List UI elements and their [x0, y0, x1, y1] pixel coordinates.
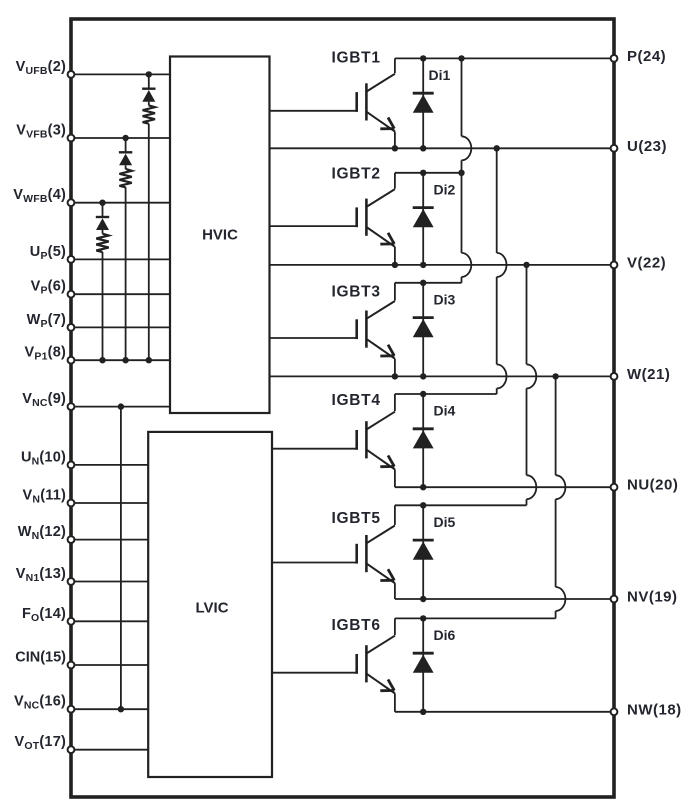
wire pin VP1(8) to IC [71, 359, 170, 361]
junction bootstrap 1 top [146, 71, 152, 77]
pin terminal UN(10) [68, 462, 75, 469]
pin terminal U(23) [611, 145, 618, 152]
diode Di2 [413, 173, 434, 265]
svg-text:Di1: Di1 [429, 67, 451, 83]
svg-text:IGBT1: IGBT1 [332, 50, 381, 67]
wire pin UN(10) to IC [71, 464, 148, 466]
junction feed C at V rail [523, 262, 529, 268]
pin terminal NU(20) [611, 484, 618, 491]
junction feed A at P rail [458, 55, 464, 61]
wire VNC bus vertical [120, 407, 122, 710]
junction diode Di4 anode at emitter rail [420, 484, 426, 490]
svg-text:IGBT3: IGBT3 [332, 284, 381, 301]
svg-text:VN(11): VN(11) [23, 488, 66, 506]
wire emitter rail row 1 [270, 147, 615, 149]
junction diode Di5 anode at emitter rail [420, 596, 426, 602]
wire gate lead IGBT5 [272, 562, 357, 564]
svg-text:UN(10): UN(10) [21, 449, 66, 467]
svg-text:U(23): U(23) [627, 138, 667, 155]
junction diode Di3 cathode at collector rail [420, 280, 426, 286]
junction VNC(16) [118, 706, 124, 712]
svg-text:VOT(17): VOT(17) [15, 734, 66, 752]
wire emitter rail row 5 [395, 598, 614, 600]
junction bootstrap 2 top [122, 135, 128, 141]
wire pin VWFB(4) to IC [71, 202, 170, 204]
wire emitter rail row 3 [270, 375, 615, 377]
svg-text:VN1(13): VN1(13) [16, 566, 66, 584]
junction feed B at U rail [494, 145, 500, 151]
transistor IGBT5 symbol [357, 505, 395, 599]
junction diode Di6 anode at emitter rail [420, 709, 426, 715]
svg-text:Di5: Di5 [434, 514, 456, 530]
wire collector rail row 1 [395, 57, 614, 59]
wire feed IGBT2 collector to IGBT3 collector [462, 173, 472, 283]
pin terminal NV(19) [611, 596, 618, 603]
pin terminal WN(12) [68, 536, 75, 543]
svg-text:CIN(15): CIN(15) [15, 650, 66, 666]
wire bootstrap branch 2 lower segment [125, 187, 127, 360]
pin terminal VNC(9) [68, 403, 75, 410]
junction feed A at IGBT2 collector rail [458, 170, 464, 176]
svg-text:IGBT2: IGBT2 [332, 166, 381, 183]
module outline border [71, 19, 614, 797]
junction diode Di1 cathode at collector rail [420, 55, 426, 61]
wire emitter rail row 4 [395, 486, 614, 488]
wire pin VNC(9) to IC [71, 406, 170, 408]
transistor IGBT6 symbol [357, 618, 395, 711]
svg-text:Di4: Di4 [434, 403, 456, 419]
junction feed D at W rail [552, 373, 558, 379]
svg-text:HVIC: HVIC [202, 227, 238, 244]
diode Di3 [413, 283, 434, 377]
junction IGBT3 emitter at rail [392, 373, 398, 379]
svg-text:UP(5): UP(5) [30, 244, 66, 262]
junction diode Di6 cathode at collector rail [420, 615, 426, 621]
svg-text:WP(7): WP(7) [27, 312, 66, 330]
pin terminal UP(5) [68, 256, 75, 263]
svg-text:WN(12): WN(12) [18, 524, 66, 542]
wire pin VN1(13) to IC [71, 581, 148, 583]
transistor IGBT4 symbol [357, 394, 395, 487]
bootstrap resistor RB2 [119, 169, 131, 187]
svg-text:FO(14): FO(14) [22, 606, 66, 624]
junction IGBT1 emitter at rail [392, 145, 398, 151]
transistor IGBT2 symbol [357, 173, 395, 265]
pin terminal VP1(8) [68, 357, 75, 364]
pin terminal WP(7) [68, 324, 75, 331]
wire collector rail row 4 [395, 393, 497, 395]
junction bootstrap 1 at VP1 line [146, 357, 152, 363]
svg-text:IGBT6: IGBT6 [332, 617, 381, 634]
diode Di5 [413, 505, 434, 599]
pin terminal VP(6) [68, 291, 75, 298]
op-block LVIC U2 [148, 432, 272, 777]
wire feed V to IGBT5 collector [527, 265, 537, 505]
wire pin FO(14) to IC [71, 620, 148, 622]
pin terminal P(24) [611, 55, 618, 62]
bootstrap diode DB2 [119, 152, 132, 165]
junction diode Di2 anode at emitter rail [420, 262, 426, 268]
pin terminal VWFB(4) [68, 199, 75, 206]
wire bootstrap branch 1 mid segment [148, 102, 150, 106]
wire pin VUFB(2) to IC [71, 73, 170, 75]
wire bootstrap branch 2 mid segment [125, 165, 127, 169]
wire gate lead IGBT6 [272, 672, 357, 674]
bootstrap resistor RB1 [143, 105, 155, 123]
bootstrap diode DB1 [142, 89, 155, 102]
svg-text:Di6: Di6 [434, 627, 456, 643]
transistor IGBT3 symbol [357, 283, 395, 377]
wire gate lead IGBT3 [270, 337, 357, 339]
wire gate lead IGBT1 [270, 110, 357, 112]
wire bootstrap branch 1 lower segment [148, 124, 150, 361]
wire emitter rail row 2 [270, 264, 615, 266]
pin terminal V(22) [611, 262, 618, 269]
op-block HVIC U1 [170, 57, 270, 414]
svg-text:VNC(16): VNC(16) [14, 694, 66, 712]
wire gate lead IGBT2 [270, 225, 357, 227]
pin terminal VVFB(3) [68, 135, 75, 142]
svg-text:Di2: Di2 [434, 181, 456, 197]
wire collector rail row 3 [395, 282, 462, 284]
svg-text:VP(6): VP(6) [31, 279, 66, 297]
pin terminal VOT(17) [68, 746, 75, 753]
wire pin UP(5) to IC [71, 258, 170, 260]
junction bootstrap 3 top [99, 200, 105, 206]
svg-text:LVIC: LVIC [195, 600, 228, 617]
wire pin VP(6) to IC [71, 293, 170, 295]
wire pin WN(12) to IC [71, 539, 148, 541]
wire feed P to IGBT2 collector [462, 58, 472, 172]
svg-text:IGBT5: IGBT5 [332, 510, 381, 527]
svg-text:NW(18): NW(18) [627, 701, 682, 718]
junction IGBT2 emitter at rail [392, 262, 398, 268]
bootstrap resistor RB3 [96, 234, 108, 252]
bootstrap diode DB3 [96, 217, 109, 230]
svg-text:VWFB(4): VWFB(4) [13, 187, 66, 205]
wire collector rail row 2 [395, 172, 462, 174]
diode Di1 [413, 58, 434, 148]
wire pin VNC(16) to IC [71, 708, 148, 710]
junction diode Di1 anode at emitter rail [420, 145, 426, 151]
pin terminal FO(14) [68, 618, 75, 625]
junction diode Di4 cathode at collector rail [420, 391, 426, 397]
svg-text:IGBT4: IGBT4 [332, 392, 381, 409]
wire collector rail row 5 [395, 504, 527, 506]
svg-text:P(24): P(24) [627, 48, 666, 65]
wire bootstrap branch 3 lower segment [102, 252, 104, 360]
pin terminal CIN(15) [68, 662, 75, 669]
svg-text:NV(19): NV(19) [627, 589, 678, 606]
svg-text:NU(20): NU(20) [627, 477, 678, 494]
svg-text:VNC(9): VNC(9) [22, 391, 66, 409]
pin terminal VUFB(2) [68, 71, 75, 78]
wire gate lead IGBT4 [272, 448, 357, 450]
svg-text:V(22): V(22) [627, 254, 666, 271]
svg-text:VUFB(2): VUFB(2) [16, 59, 66, 77]
pin terminal W(21) [611, 373, 618, 380]
junction bootstrap 2 at VP1 line [122, 357, 128, 363]
wire pin VOT(17) to IC [71, 749, 148, 751]
diode Di4 [413, 394, 434, 487]
junction bootstrap 3 at VP1 line [99, 357, 105, 363]
junction VNC(9) [118, 403, 124, 409]
wire bootstrap branch 3 mid segment [102, 230, 104, 234]
junction diode Di2 cathode at collector rail [420, 170, 426, 176]
wire bootstrap branch 1 upper segment [148, 74, 150, 88]
wire bootstrap branch 3 upper segment [102, 203, 104, 217]
svg-text:VP1(8): VP1(8) [25, 345, 66, 363]
wire feed W to IGBT6 collector [556, 376, 566, 618]
svg-text:VVFB(3): VVFB(3) [16, 123, 66, 141]
junction diode Di3 anode at emitter rail [420, 373, 426, 379]
wire pin WP(7) to IC [71, 326, 170, 328]
pin terminal NW(18) [611, 708, 618, 715]
svg-text:Di3: Di3 [434, 291, 456, 307]
wire feed U to IGBT4 collector [497, 148, 507, 394]
junction diode Di5 cathode at collector rail [420, 502, 426, 508]
wire pin CIN(15) to IC [71, 664, 148, 666]
pin terminal VN(11) [68, 500, 75, 507]
transistor IGBT1 symbol [357, 58, 395, 148]
diode Di6 [413, 618, 434, 711]
wire bootstrap branch 2 upper segment [125, 138, 127, 152]
wire pin VN(11) to IC [71, 502, 148, 504]
wire pin VVFB(3) to IC [71, 137, 170, 139]
svg-text:W(21): W(21) [627, 366, 670, 383]
pin terminal VNC(16) [68, 706, 75, 713]
wire emitter rail row 6 [395, 711, 614, 713]
pin terminal VN1(13) [68, 578, 75, 585]
wire collector rail row 6 [395, 617, 556, 619]
